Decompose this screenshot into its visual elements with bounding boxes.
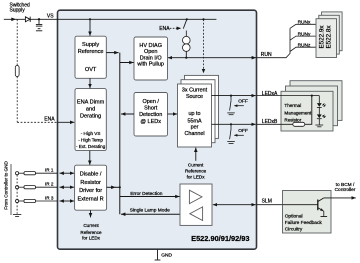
svg-text:Failure Feedback: Failure Feedback: [285, 220, 323, 226]
svg-text:Reference: Reference: [80, 230, 102, 235]
svg-text:to BCM /: to BCM /: [336, 182, 355, 188]
svg-text:RUNx: RUNx: [298, 20, 311, 26]
svg-text:Current: Current: [83, 223, 99, 228]
svg-text:Resistor: Resistor: [80, 180, 101, 186]
svg-text:- Ext. Derating: - Ext. Derating: [76, 144, 106, 149]
svg-text:- High Temp: - High Temp: [78, 138, 103, 143]
svg-text:Supply: Supply: [10, 7, 26, 13]
svg-text:Controller: Controller: [335, 187, 356, 193]
svg-text:for LEDx: for LEDx: [187, 174, 206, 179]
svg-text:for LEDx: for LEDx: [82, 236, 101, 241]
svg-text:SLM: SLM: [262, 198, 272, 204]
svg-text:Source: Source: [186, 94, 203, 100]
svg-text:Single Lamp Mode: Single Lamp Mode: [130, 207, 170, 213]
svg-text:Drain I/O: Drain I/O: [140, 55, 163, 61]
svg-text:IR 3: IR 3: [45, 195, 54, 200]
svg-text:@ LEDx: @ LEDx: [140, 119, 161, 125]
svg-text:E522.8x: E522.8x: [325, 25, 332, 49]
svg-text:ENA: ENA: [44, 117, 55, 123]
svg-text:Detection: Detection: [139, 112, 162, 118]
svg-text:Current: Current: [188, 163, 204, 168]
svg-text:per: per: [191, 125, 199, 131]
svg-text:Driver for: Driver for: [79, 188, 102, 194]
svg-text:RUNz: RUNz: [298, 43, 311, 49]
svg-text:ENA Dimm: ENA Dimm: [77, 99, 105, 105]
svg-text:IR 1: IR 1: [45, 168, 54, 173]
svg-text:55mA: 55mA: [187, 118, 201, 124]
svg-text:Management: Management: [284, 111, 312, 116]
svg-text:HV DIAG: HV DIAG: [139, 43, 162, 49]
svg-text:and: and: [86, 106, 95, 112]
svg-text:Open: Open: [144, 49, 157, 55]
svg-text:IR 2: IR 2: [45, 182, 54, 187]
svg-text:Disable /: Disable /: [80, 171, 102, 177]
svg-text:RUNy: RUNy: [298, 31, 311, 37]
svg-text:From Controller to GND: From Controller to GND: [4, 161, 9, 210]
svg-text:3x Current: 3x Current: [182, 88, 208, 94]
svg-text:OFF: OFF: [238, 128, 248, 134]
svg-text:Derating: Derating: [80, 114, 101, 120]
svg-text:OFF: OFF: [238, 99, 248, 105]
svg-text:E522.90/91/92/93: E522.90/91/92/93: [191, 234, 249, 243]
svg-text:Reference: Reference: [185, 168, 207, 173]
svg-text:Short: Short: [144, 106, 158, 112]
svg-text:GND: GND: [161, 252, 172, 258]
svg-text:External R: External R: [78, 197, 104, 203]
svg-text:Thermal: Thermal: [284, 103, 301, 108]
svg-text:Supply: Supply: [82, 42, 99, 48]
svg-text:Reference: Reference: [78, 49, 104, 55]
svg-text:Open /: Open /: [142, 99, 159, 105]
svg-text:Circuitry: Circuitry: [285, 226, 303, 232]
svg-text:Optional: Optional: [285, 213, 303, 219]
svg-text:Channel: Channel: [184, 131, 204, 137]
svg-text:Resistor: Resistor: [284, 117, 301, 122]
svg-text:up to: up to: [189, 111, 201, 117]
svg-text:- High VS: - High VS: [81, 131, 101, 136]
svg-text:Error Detection: Error Detection: [130, 191, 163, 197]
svg-text:with Pullup: with Pullup: [136, 62, 164, 68]
svg-text:VS: VS: [47, 13, 54, 19]
svg-text:OVT: OVT: [85, 67, 97, 73]
svg-text:ENA: ENA: [159, 26, 170, 32]
